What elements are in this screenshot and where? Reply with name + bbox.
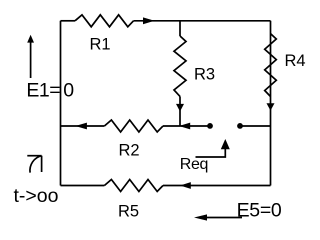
wire bottom left segment — [61, 185, 105, 187]
svg-text:R5: R5 — [118, 203, 139, 221]
svg-text:E5=0: E5=0 — [237, 200, 282, 222]
wire middle to terminal — [163, 125, 210, 127]
arrowhead Req up — [221, 139, 230, 149]
wire bottom right segment — [163, 185, 271, 187]
arrowhead top wire right — [143, 17, 155, 24]
terminal node dot left — [207, 123, 213, 129]
svg-text:t->oo: t->oo — [14, 185, 59, 207]
arrowhead E5 left — [194, 214, 207, 220]
svg-text:R3: R3 — [194, 65, 215, 83]
wire left vertical — [60, 21, 62, 186]
svg-text:E1=: E1= — [26, 80, 60, 102]
terminal node dot right — [237, 123, 243, 129]
wire terminal to right — [240, 125, 271, 127]
current arrow E5 shaft — [200, 217, 242, 219]
arrowhead E1 up — [27, 35, 34, 43]
svg-text:0: 0 — [63, 80, 74, 102]
arrowhead R3 down — [176, 104, 184, 112]
resistor R2 — [104, 120, 163, 132]
wire middle left segment — [61, 125, 105, 127]
wire right vertical — [270, 21, 272, 186]
resistor R4 — [265, 34, 277, 97]
resistor R5 — [104, 180, 163, 192]
wire R3 bottom stub — [179, 96, 181, 126]
svg-text:R1: R1 — [90, 36, 111, 54]
t to infinity curved arrow — [30, 156, 42, 173]
current arrow E1 shaft — [30, 41, 32, 78]
arrowhead middle wire left near E1 — [75, 123, 87, 130]
arrowhead bottom wire left — [180, 182, 191, 189]
wire top right segment — [134, 20, 271, 22]
resistor R1 — [75, 15, 134, 27]
svg-text:Req: Req — [180, 156, 208, 173]
arrowhead R4 down — [267, 103, 275, 110]
Req probe arrow shaft — [196, 146, 226, 157]
svg-text:R2: R2 — [119, 142, 140, 160]
wire R3 top stub — [179, 21, 181, 36]
arrowhead middle wire left at R3 node — [179, 123, 190, 130]
svg-text:R4: R4 — [285, 52, 306, 70]
resistor R3 — [174, 36, 186, 96]
wire top left segment — [61, 20, 76, 22]
